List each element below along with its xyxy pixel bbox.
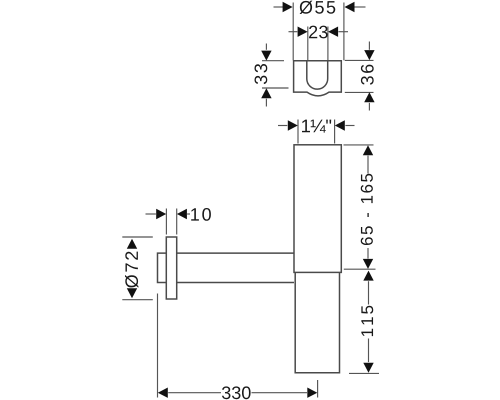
ext line bottom: [122, 299, 153, 301]
arrow left: [298, 27, 308, 37]
arrow up: [363, 145, 373, 155]
ext line bottom: [262, 87, 289, 89]
arrow up: [261, 88, 271, 98]
ext line top: [122, 236, 153, 238]
dim 1 1/4 inch: [278, 120, 355, 144]
ext line bottom: [349, 372, 379, 374]
arrow stem top: [265, 44, 267, 50]
dim 36: [345, 42, 374, 111]
dim line lower segment: [367, 248, 369, 259]
ext line right: [334, 120, 336, 144]
arrow down: [363, 363, 373, 373]
ext line right: [327, 27, 329, 61]
label 330: [222, 386, 251, 399]
ext line left: [307, 27, 309, 61]
arrow left: [288, 120, 298, 130]
dim 33: [262, 44, 289, 107]
label 10: [191, 208, 211, 221]
ext line left: [165, 209, 167, 235]
dim 10: [146, 209, 191, 235]
ext line top: [262, 60, 284, 62]
arrow tails: [278, 125, 287, 127]
arrow up: [364, 92, 374, 102]
dim line left segment: [168, 392, 221, 394]
wall flange: [166, 237, 176, 299]
arrow down: [364, 50, 374, 60]
ext line left: [292, 3, 294, 61]
dim 330: [158, 294, 318, 398]
dim Ø72: [122, 237, 153, 300]
arrow right: [328, 27, 338, 37]
ext line right: [317, 380, 319, 398]
dim 23: [289, 27, 349, 61]
arrow left: [156, 209, 166, 219]
label 1 1/4": [302, 120, 331, 133]
siphon lower cup: [295, 272, 339, 372]
arrow up: [363, 271, 373, 281]
dim 65-165: [344, 145, 376, 269]
label 33: [254, 64, 267, 84]
arrow tails: [289, 31, 298, 33]
label Ø72: [125, 252, 138, 288]
ext line left: [157, 294, 159, 398]
dim 115: [349, 281, 379, 373]
ext line left: [297, 120, 299, 144]
label Ø55: [300, 1, 336, 14]
ext line top: [344, 144, 374, 146]
dim Ø55: [274, 3, 366, 61]
label 23: [309, 26, 328, 39]
ext line right: [176, 209, 178, 235]
arrow tails: [146, 213, 156, 215]
arrow right: [177, 209, 187, 219]
ext line right: [343, 3, 345, 61]
arrow left: [283, 2, 293, 12]
arrow left: [158, 388, 168, 398]
arrow right: [345, 2, 355, 12]
ext line top: [345, 59, 374, 61]
dim line upper segment: [368, 281, 370, 304]
ext line bottom: [345, 91, 374, 93]
siphon upper body: [294, 145, 341, 273]
label 115: [361, 306, 373, 336]
arrow down: [363, 259, 373, 269]
arrow right: [335, 120, 345, 130]
label 65 - 165: [361, 174, 373, 245]
ext line bottom: [344, 268, 376, 270]
bracket U recess: [307, 61, 328, 89]
arrow stem bottom: [368, 103, 370, 111]
arrow stem bottom: [265, 99, 267, 107]
bracket top-view outline: [294, 61, 342, 96]
dim line upper segment: [367, 156, 369, 174]
dim line lower segment: [368, 339, 370, 363]
arrow down: [127, 288, 137, 298]
horizontal pipe: [158, 253, 295, 282]
dim line right segment: [252, 392, 308, 394]
arrow stem top: [368, 42, 370, 50]
arrow up: [127, 239, 137, 249]
label 36: [361, 65, 374, 85]
arrow tails: [274, 6, 284, 8]
arrow right: [307, 388, 317, 398]
arrow down: [261, 51, 271, 61]
